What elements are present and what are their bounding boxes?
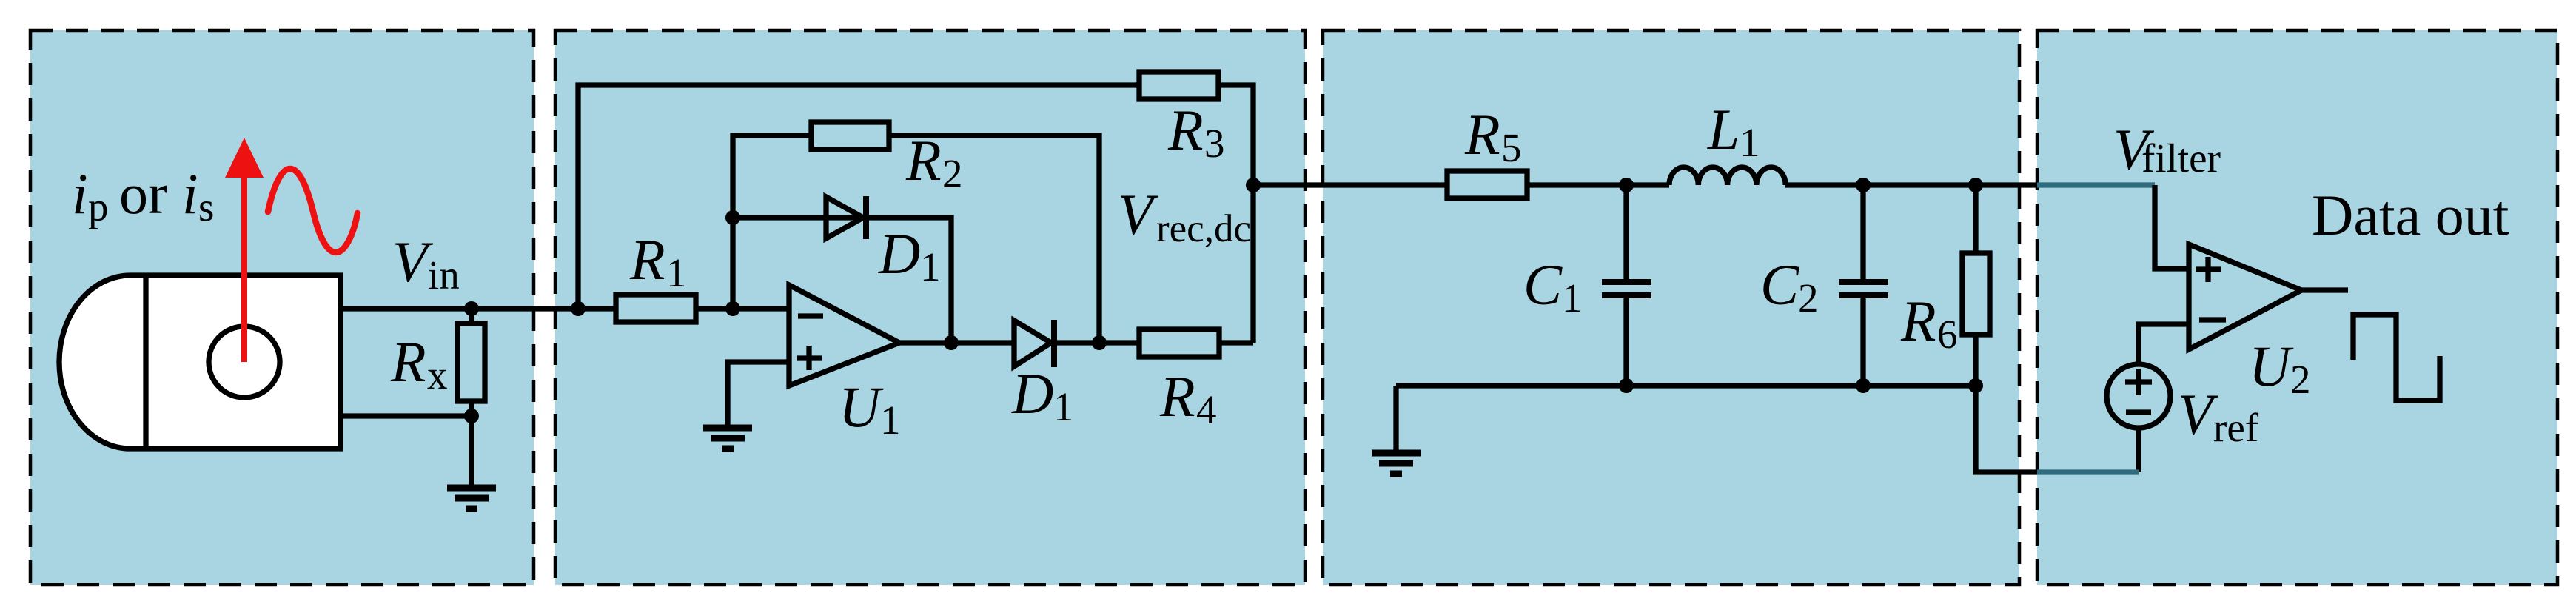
sensor divider line [143, 275, 148, 449]
svg-text:x: x [427, 352, 448, 398]
square wave symbol [2353, 315, 2440, 400]
svg-text:R: R [1900, 289, 1936, 353]
svg-text:filter: filter [2141, 135, 2221, 181]
node C1 top [1619, 178, 1634, 192]
wire U2 output [2301, 287, 2348, 292]
node rectifier output [1092, 335, 1107, 350]
wire V_filter (teal) [2037, 182, 2155, 187]
ground (box 2) [703, 428, 752, 449]
stage box 3 (filter) [1323, 30, 2019, 585]
svg-text:1: 1 [920, 244, 941, 289]
svg-text:5: 5 [1501, 125, 1522, 170]
wire V_ref bottom return [2136, 428, 2141, 472]
stage box 2 (rectifier) [555, 30, 1305, 585]
svg-text:U: U [839, 375, 884, 439]
wire U2 inverting input to V_ref [2139, 324, 2189, 364]
resistor R5 [1447, 171, 1527, 198]
svg-text:s: s [198, 184, 214, 229]
op-amp U2 [2189, 244, 2301, 349]
stage box 1 (sensor) [30, 30, 534, 585]
wire sensor bottom output [341, 413, 472, 418]
red current arrow [225, 138, 264, 362]
resistor R6 (vertical) [1973, 185, 1978, 253]
node input (feedback tap) [571, 301, 586, 316]
wire U1 output [899, 340, 1014, 345]
node op-amp input [725, 301, 740, 316]
wire feedback riser left [578, 85, 1139, 309]
node C2 top [1856, 178, 1871, 192]
diode D1 (top) [826, 197, 863, 238]
svg-text:Data out: Data out [2312, 183, 2509, 247]
stage box 4 (comparator) [2037, 30, 2557, 585]
svg-text:R: R [629, 227, 665, 292]
wire riser input node up to R2 [733, 135, 811, 309]
node Vin [464, 301, 479, 316]
wire L1 to C2/R6 nodes [1785, 182, 2039, 187]
U1 plus sign [797, 355, 822, 360]
node Rx bottom [464, 409, 479, 423]
inductor L1 [1669, 167, 1785, 185]
wire R2 to down riser [889, 135, 1099, 343]
U2 plus sign [2196, 266, 2221, 272]
svg-text:C: C [1760, 252, 1799, 317]
wire R4 to right riser [1219, 340, 1253, 345]
svg-text:R: R [1464, 102, 1500, 167]
diode D1 (bottom) [1014, 321, 1051, 366]
wire ground stub [1393, 386, 1398, 453]
resistor R3 [1139, 72, 1218, 99]
svg-text:1: 1 [880, 398, 901, 443]
svg-text:4: 4 [1196, 387, 1217, 432]
wire R1 to op-amp inverting input [696, 306, 789, 311]
resistor Rx (vertical) [469, 309, 474, 323]
resistor R4 [1139, 329, 1219, 357]
svg-text:D: D [1011, 361, 1053, 426]
capacitor C1 [1623, 185, 1629, 279]
svg-text:or: or [119, 161, 167, 226]
svg-text:D: D [878, 221, 920, 286]
svg-text:p: p [88, 184, 109, 229]
wire V_ref return (teal) [2037, 469, 2139, 474]
svg-text:i: i [182, 161, 198, 226]
wire D1 to R4 [1054, 340, 1139, 345]
wire R5 to C1 node [1527, 182, 1669, 187]
svg-text:2: 2 [942, 151, 963, 196]
voltage source V_ref [2107, 364, 2170, 428]
svg-text:2: 2 [1798, 275, 1819, 321]
svg-text:rec,dc: rec,dc [1156, 207, 1251, 250]
wire R6 bottom down to V_ref return [1976, 386, 2037, 472]
svg-text:ref: ref [2213, 405, 2259, 450]
svg-text:in: in [428, 252, 460, 298]
wire U1 non-inverting input to ground [728, 362, 789, 428]
svg-text:U: U [2249, 334, 2294, 398]
svg-text:V: V [1118, 182, 1159, 247]
svg-text:R: R [1167, 98, 1204, 162]
svg-text:2: 2 [2290, 357, 2311, 402]
node V_rec,dc [1246, 178, 1261, 192]
svg-text:1: 1 [1740, 120, 1760, 165]
ground (box 3) [1372, 453, 1421, 474]
op-amp U1 [789, 285, 899, 386]
svg-text:i: i [72, 161, 88, 226]
wire sensor top output to R1 [341, 306, 616, 311]
red sine wave [268, 169, 358, 252]
svg-text:1: 1 [1053, 384, 1074, 429]
wire Rx bottom to ground [469, 416, 474, 488]
sensor aperture circle [209, 326, 280, 398]
wire D1 top branch [733, 218, 951, 343]
node R6 top [1968, 178, 1983, 192]
svg-text:3: 3 [1204, 121, 1225, 166]
ground (box 1) [447, 488, 496, 509]
svg-text:C: C [1523, 252, 1563, 317]
svg-text:R: R [1159, 364, 1195, 429]
capacitor C2 [1860, 185, 1865, 279]
node R6 bottom [1968, 378, 1983, 393]
wire V_rec,dc to R5 [1253, 182, 1447, 187]
node D1 branch [725, 210, 740, 225]
wire V_filter drop to U2 + input [2155, 185, 2189, 269]
svg-text:R: R [390, 329, 426, 394]
resistor R2 [811, 122, 889, 150]
U1 minus sign [798, 313, 823, 318]
svg-text:1: 1 [666, 250, 687, 295]
current sensor body [59, 275, 341, 449]
node U1 output [944, 335, 959, 350]
resistor R1 [616, 295, 696, 322]
svg-text:1: 1 [1562, 275, 1583, 321]
node C2 bottom [1856, 378, 1871, 393]
svg-text:6: 6 [1937, 312, 1958, 357]
U2 minus sign [2199, 317, 2226, 322]
svg-text:L: L [1707, 97, 1740, 161]
ground bus (box 3) [1396, 383, 1976, 388]
node C1 bottom [1619, 378, 1634, 393]
wire R3 to right riser [1218, 85, 1253, 343]
